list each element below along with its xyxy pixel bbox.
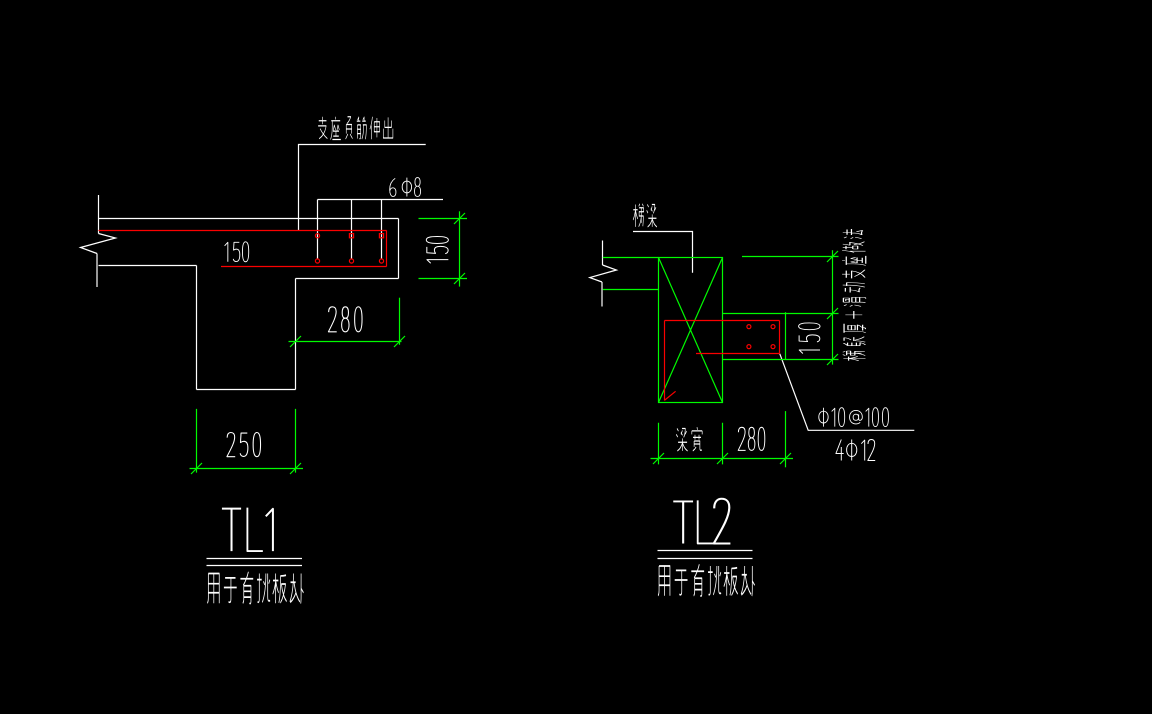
rebar hook red TL2 <box>664 391 675 400</box>
rebar end red TL2 <box>779 321 781 354</box>
slab tip edge upper TL2 <box>785 312 787 359</box>
dim 280 line TL1 <box>289 341 402 343</box>
beam outline TL2 <box>659 258 723 403</box>
text 用于有挑板处 TL2 <box>658 564 755 596</box>
rebar section dots TL1 <box>315 234 319 238</box>
text 梯梁 <box>633 204 657 227</box>
text 4phi12 <box>836 440 875 461</box>
break cut lower TL2 <box>601 282 603 307</box>
slab bottom rebar red TL2 <box>696 353 780 355</box>
vertical dim line TL2 <box>832 250 834 364</box>
slab soffit TL1 <box>99 265 197 267</box>
left cut edge lower TL1 <box>96 254 98 288</box>
bottom dim ticks TL2 <box>653 453 664 464</box>
leader line rebar note TL2 <box>780 354 915 431</box>
text 150 slab TL1 <box>225 242 249 262</box>
break cut upper TL2 <box>602 241 604 266</box>
slab tip edge lower TL2 <box>785 411 787 467</box>
rebar pointer lines TL1 <box>318 200 382 260</box>
dim 150 ticks TL1 <box>454 213 465 224</box>
text 6phi8 <box>390 178 421 197</box>
dim extension top TL2 <box>742 256 839 258</box>
title TL1 <box>222 508 273 551</box>
bottom rebar red TL1 <box>221 266 387 268</box>
bottom dim line TL2 <box>651 458 794 460</box>
dim extension mid TL2 <box>723 313 839 315</box>
dim 250 line TL1 <box>190 468 304 470</box>
label line 6phi8 <box>318 199 444 201</box>
leader line 梯梁 <box>633 232 693 273</box>
title underline TL1 <box>207 559 303 566</box>
dim 280 ticks TL1 <box>290 336 301 347</box>
slab top rebar red TL2 <box>665 320 780 322</box>
vertical dim ticks TL2 <box>827 251 838 262</box>
beam diagonal 1 TL2 <box>659 258 723 403</box>
beam web right TL1 <box>295 279 297 390</box>
title TL2 <box>673 499 730 544</box>
rebar bend red TL2 <box>664 321 666 401</box>
dim extension bottom TL2 <box>723 359 839 361</box>
text 250 TL1 <box>227 433 261 457</box>
text 支座负筋伸出 <box>318 117 393 140</box>
vertical note 梯段厚+滑动支座做法 <box>842 229 866 361</box>
slab right edge TL1 <box>398 219 400 279</box>
break zigzag TL1 <box>81 234 116 254</box>
bottom dim extensions TL2 <box>659 423 723 465</box>
text 150 rotated TL2 <box>799 323 820 354</box>
landing top edge TL2 <box>603 257 659 259</box>
left cut edge upper TL1 <box>98 195 100 234</box>
text phi10@100 <box>819 408 889 427</box>
text 用于有挑板处 TL1 <box>207 572 303 604</box>
rebar section dots TL2 <box>747 325 751 329</box>
beam bottom TL1 <box>197 389 296 391</box>
text 150 rotated TL1 <box>426 237 448 264</box>
beam web left TL1 <box>196 266 198 390</box>
dim 250 extension lines TL1 <box>197 409 296 473</box>
landing soffit TL2 <box>603 289 659 291</box>
rebar end red TL1 <box>386 231 388 267</box>
beam diagonal 2 TL2 <box>659 258 723 403</box>
slab top edge TL1 <box>99 218 399 220</box>
top rebar red TL1 <box>99 230 387 232</box>
dim 280 extension TL1 <box>399 298 401 345</box>
text 280 TL2 <box>738 427 765 450</box>
dim 250 ticks TL1 <box>191 463 202 474</box>
dim 150 line TL1 <box>459 211 461 286</box>
text 梁宽 <box>676 427 702 451</box>
cantilever soffit TL1 <box>296 278 399 280</box>
leader line 支座负筋伸出 <box>299 145 426 231</box>
dim 150 extension lines TL1 <box>419 219 468 279</box>
break zigzag TL2 <box>590 265 617 282</box>
title underline TL2 <box>658 551 753 559</box>
text 280 TL1 <box>328 307 362 332</box>
